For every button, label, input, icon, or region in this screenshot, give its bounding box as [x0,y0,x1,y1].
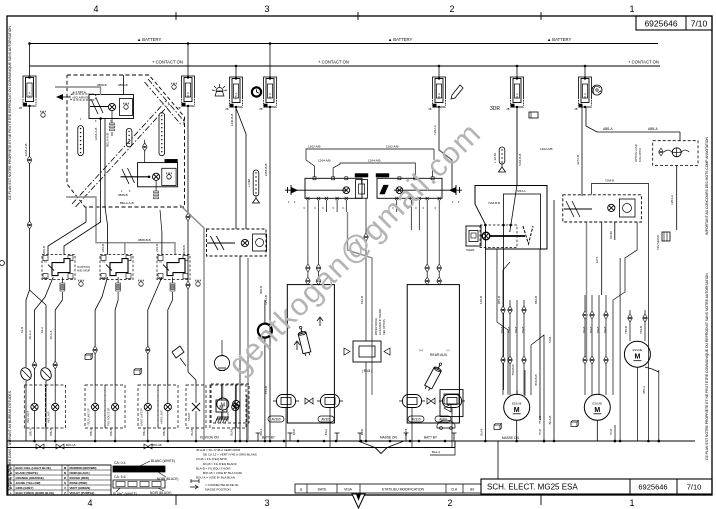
row lower stubs [307,200,309,212]
motor M3 rear aux [624,341,650,367]
svg-text:AV310: AV310 [411,418,421,422]
cluster box 1 [89,95,134,119]
dashed sub box [480,225,517,248]
wire cluster to sw3 [161,232,163,255]
left bus elbow [430,441,455,455]
fuse F7 10A [584,65,587,68]
wire M3 to masse [658,370,660,441]
svg-text:CA: 5-6: CA: 5-6 [114,475,126,479]
black label ELEVA [165,159,178,162]
left margin punch mark [0,261,5,266]
svg-text:= CONNECTEUR DE FIL: = CONNECTEUR DE FIL [205,483,239,487]
svg-text:KLAXON ON: KLAXON ON [200,436,219,440]
lamp box L4 [105,385,125,428]
svg-text:63-B: 63-B [20,327,24,333]
stub connectors [306,264,310,267]
gray feed wire into cluster [55,87,101,95]
svg-text:10 A: 10 A [268,93,272,99]
svg-text:L: L [10,491,12,495]
svg-text:206-B: 206-B [42,246,46,254]
icon box 2 [162,168,176,185]
svg-text:CLA: CLA [451,488,458,492]
svg-text:BELA-A-B: BELA-A-B [120,201,134,205]
courtesy dashed box [211,384,249,423]
svg-text:LICENSED IF THE/RR: LICENSED IF THE/RR [378,309,382,335]
bottom ruler tick 2/1 [540,495,542,505]
wire right stubs down [426,212,428,264]
left row internal wire [285,189,346,191]
svg-text:751-B: 751-B [538,416,542,424]
svg-text:+ DIM: + DIM [247,178,251,187]
svg-text:(-): (-) [447,348,450,352]
svg-text:M: M [514,407,520,414]
svg-text:ARRD LANT: ARRD LANT [160,410,163,424]
gray riser mid [247,258,249,441]
flasher label black [355,174,368,178]
battery bus [30,43,659,45]
wires below rear window box [484,249,486,441]
svg-text:2B: 2B [259,107,262,111]
svg-text:3274-B: 3274-B [576,155,580,165]
M3 riser [636,367,638,441]
row top pins [313,177,316,180]
svg-text:CA: 0-4: CA: 0-4 [114,461,126,465]
svg-text:6925646: 6925646 [644,19,677,29]
lamp L5 [144,403,151,410]
svg-text:A1: A1 [44,260,48,264]
switch contact left of box1 [90,106,108,108]
washer cylinder front [296,325,311,356]
wires below rear cluster [601,222,603,295]
svg-text:V: V [64,486,66,490]
svg-text:3rd: 3rd [470,488,475,492]
wire cluster to sw2 [105,207,108,255]
wire L3 to masse [94,385,96,403]
lamp L6 [164,403,171,410]
svg-text:1264-A/B: 1264-A/B [318,159,331,163]
svg-text:DE CA.12 + VERT N°45.A GRIS-BL: DE CA.12 + VERT N°45.A GRIS-BLANC [203,453,258,457]
switch unit S2 [100,255,133,280]
svg-text:1262-A/B: 1262-A/B [386,145,399,149]
svg-text:+ 30-50: + 30-50 [493,153,497,164]
feed pill col2 [499,147,505,164]
svg-text:ESSUIE: ESSUIE [633,348,643,352]
svg-text:ORANGE (ORANGE): ORANGE (ORANGE) [16,476,44,480]
diamond junction rear [427,398,435,404]
svg-text:355-A: 355-A [642,386,646,394]
slant wires to node [358,441,375,448]
svg-text:2B: 2B [506,107,509,111]
svg-text:M: M [594,407,600,414]
wire S2 to lamp L4 [115,300,118,385]
wire clamp [264,338,266,441]
wire F7 to option box [586,107,680,132]
wires M3 [629,310,631,341]
svg-text:+ CONTACT ON: + CONTACT ON [318,60,349,65]
svg-text:10 A: 10 A [515,93,519,99]
revision strip [295,484,481,493]
svg-text:7264: 7264 [548,336,552,343]
svg-text:ARRG LANT SP: ARRG LANT SP [140,408,143,426]
wire L2 to masse [54,385,56,403]
fuse F6 10A [516,65,519,68]
svg-text:T-BOOT: T-BOOT [188,412,191,421]
svg-text:4: 4 [93,4,98,14]
svg-text:2: 2 [447,498,452,508]
svg-text:BOU-A = VOIE B° BLA BLAN: BOU-A = VOIE B° BLA BLAN [196,476,235,480]
hazard label black [376,174,389,178]
oval label V3 [408,416,424,422]
svg-text:266-B: 266-B [101,244,105,252]
lamp high-beam [108,103,115,110]
svg-text:2264-A-B: 2264-A-B [24,144,28,157]
svg-text:3DR: 3DR [490,106,500,112]
wire S3 to lamp L5 [148,277,162,385]
svg-text:A1: A1 [159,260,163,264]
svg-text:M: M [221,403,225,409]
svg-text:REAR AUX.: REAR AUX. [430,353,448,357]
fuse F5 10A [438,65,441,68]
clamp ring [258,324,272,338]
M2 risers [613,270,625,395]
svg-text:B3: B3 [44,276,48,280]
small bus glyphs [256,433,261,441]
svg-text:30.A-5: 30.A-5 [49,330,53,339]
icon horn small 2 [134,370,140,375]
clock icon at F4 [252,87,261,96]
indicator icon box [120,99,133,116]
svg-text:751-B: 751-B [540,428,542,435]
svg-text:FEUX LANT SP: FEUX LANT SP [88,408,91,425]
svg-text:Z: Z [64,491,66,495]
beacon icon at F3 [216,88,223,91]
svg-text:764-B: 764-B [604,326,607,333]
gray wire to washer box [348,212,373,395]
bottom ruler tick 4/3 [175,495,177,505]
svg-text:SCH. ELECT. MG25 ESA: SCH. ELECT. MG25 ESA [487,483,578,492]
svg-text:ABB-A: ABB-A [648,127,658,131]
svg-text:BLA-B: BLA-B [480,428,483,435]
box chamfer [475,204,486,225]
horn HP2 [39,366,54,382]
svg-text:AV300: AV300 [271,418,281,422]
svg-text:2: 2 [449,4,454,14]
svg-text:▲ BATTERY: ▲ BATTERY [388,37,412,42]
svg-text:BELA-A-B: BELA-A-B [106,133,110,147]
svg-text:ROUGE (RED): ROUGE (RED) [70,476,89,480]
motor box M-plate [216,400,227,412]
ladder connector S3 [172,277,174,283]
wire cluster to sw1b [64,207,101,255]
svg-text:BLANC (WHITE): BLANC (WHITE) [113,492,137,496]
oval label V4 [435,416,451,422]
svg-text:10 A: 10 A [437,93,441,99]
svg-text:AV62: AV62 [439,418,447,422]
svg-text:BOU-B: BOU-B [152,443,162,447]
svg-text:7/10: 7/10 [691,19,708,29]
svg-text:NOIR (BLACK): NOIR (BLACK) [70,471,90,475]
left arrow turn [291,187,298,194]
svg-text:AV301: AV301 [321,418,331,422]
gray harness wire 1 [66,197,175,255]
wire F6 into box [516,180,518,186]
svg-text:10 A: 10 A [583,93,587,99]
svg-text:+ECLAIRAGE: +ECLAIRAGE [72,96,89,100]
svg-text:1254-B-B: 1254-B-B [264,164,268,177]
svg-text:H: H [10,486,12,490]
colour code table [8,465,111,495]
svg-text:▲ BATTERY: ▲ BATTERY [547,37,571,42]
fog connector plug [662,232,670,241]
svg-text:BATT BY: BATT BY [262,436,276,440]
diamond junction front [305,398,313,404]
headlamp icon S1 [79,282,83,286]
relay EV8 [353,341,381,362]
svg-text:763-B: 763-B [590,326,593,333]
rear box entry connectors [425,277,429,280]
svg-text:BOU-B: BOU-B [51,428,53,436]
svg-text:761-B: 761-B [611,428,613,435]
M1 right riser [531,335,544,441]
svg-text:1240-B-B: 1240-B-B [230,114,234,127]
svg-text:ESSUIE: ESSUIE [512,401,522,405]
slant wires lamp row [247,441,260,448]
svg-text:Δ: Δ [300,487,303,492]
connector on L1 wire [32,361,36,364]
svg-text:B3: B3 [102,276,106,280]
svg-text:1: 1 [629,4,634,14]
wires below washer boxes [285,408,287,448]
horn feed wires [26,290,30,367]
wire L1 to masse [34,385,36,403]
relay block left of bus [440,390,463,417]
svg-text:VISA: VISA [344,488,352,492]
horn HP1 [19,366,34,382]
svg-text:3: 3 [264,498,269,508]
svg-text:612-B: 612-B [362,428,364,435]
wire into box2 top [144,140,146,163]
lamp L9 [233,400,240,407]
fuse F2 10A [187,42,190,45]
svg-text:2B: 2B [574,107,577,111]
wire right of box [553,200,555,441]
option lamp dashed box [653,141,698,166]
svg-text:760-B: 760-B [597,326,600,333]
svg-text:ABB-A: ABB-A [603,127,613,131]
headlamp icon at F2 [172,85,176,89]
horn icon at F1 [41,113,45,117]
svg-text:NOIR: NOIR [609,230,613,238]
svg-text:BOU-A: BOU-A [66,443,76,447]
svg-text:S: S [64,481,66,485]
wiper control box rear [407,285,459,423]
connector pill P1 [78,126,84,156]
svg-text:768-B: 768-B [624,326,628,334]
svg-text:BOU-A: BOU-A [30,428,33,436]
row bottom pins [306,197,309,200]
svg-text:629-A: 629-A [325,428,328,435]
svg-text:TERMA: TERMA [466,249,475,252]
svg-text:OPTION LAND: OPTION LAND [634,144,638,162]
lamp L1 [31,403,38,410]
svg-text:45.A-B = FIL N°45.A VERT-NOIR: 45.A-B = FIL N°45.A VERT-NOIR [196,448,241,452]
wire F7 down to cluster [581,107,583,196]
svg-text:FOG OPTIC: FOG OPTIC [638,148,642,162]
wire box1 to bottom [100,119,102,208]
rear window switch box [475,186,547,250]
arrow up icons front [294,341,300,350]
svg-text:860-B-B: 860-B-B [534,374,538,385]
svg-text:160-B: 160-B [479,296,483,304]
wire S3 to lamp L6 [168,300,173,385]
top title box [636,16,712,30]
connector pill P3 [159,113,165,156]
svg-text:7264-B-B: 7264-B-B [488,201,500,205]
panel lamp cluster [207,229,267,256]
lower wire bus [7,447,455,449]
turn switch left body [305,178,362,198]
svg-text:MASSE ON: MASSE ON [380,436,398,440]
switch unit S1 [42,255,75,280]
lamp L3 [92,403,99,410]
svg-text:754-B: 754-B [522,326,525,333]
svg-text:MARRON (BROWN): MARRON (BROWN) [70,466,97,470]
svg-text:JAUNE (YELLOW): JAUNE (YELLOW) [16,481,41,485]
svg-text:3868-B: 3868-B [118,83,128,87]
svg-text:ETAT/LIEU MODIFICATION: ETAT/LIEU MODIFICATION [382,488,425,492]
svg-text:63-A: 63-A [40,327,44,333]
headlamp icon S2 [139,282,143,286]
hazard wiper [379,185,388,194]
lamp box L5 [138,385,158,428]
heater bar [490,235,525,237]
svg-text:7/10: 7/10 [687,483,702,492]
solenoid V4 [443,395,462,408]
svg-text:10 A: 10 A [28,92,32,98]
svg-text:VERT (GREEN): VERT (GREEN) [70,486,91,490]
wire S1 to lamp L2 [55,300,62,385]
svg-text:CEV NERVO: CEV NERVO [656,235,660,250]
option connector [659,148,663,151]
svg-text:BLANC (WHITE): BLANC (WHITE) [16,471,38,475]
headlamp icon S3 [196,282,200,286]
svg-text:20-B-B: 20-B-B [182,245,186,254]
svg-text:226-B: 226-B [155,244,159,252]
fan icon at F7 [592,85,602,95]
right arrow turn [449,187,456,194]
inner partition [504,194,541,249]
solenoid V1 [277,395,296,408]
svg-text:A1: A1 [102,260,106,264]
svg-text:BLA-B: BLA-B [548,416,552,425]
switch unit S3 [157,255,190,280]
wire L6 to masse [167,385,169,403]
oval label V1 [268,416,284,422]
M1 wire bundle [502,300,504,395]
svg-text:(+): (+) [419,348,423,352]
window icon at F6 [529,112,538,118]
wire top into box1 [123,75,125,95]
M1 bundle connectors [501,306,505,309]
svg-text:2B: 2B [225,107,228,111]
switch lever slant [510,186,517,233]
dimmer feed pill [253,170,259,196]
ACC arrow [56,94,63,100]
svg-text:▲ BATTERY: ▲ BATTERY [137,37,161,42]
car icon [437,420,455,428]
right tall risers [592,183,649,441]
svg-text:1254-A: 1254-A [670,195,674,205]
gray harness drop box2 [124,243,126,255]
svg-text:1: 1 [629,498,634,508]
lamp L4 [112,403,119,410]
svg-text:CE PLAN EST NOTRE PROPRIETE ET: CE PLAN EST NOTRE PROPRIETE ET NE PEUT E… [8,26,12,200]
connector on L3 wire [93,346,97,349]
cluster diagonal upper [148,79,184,121]
wire F6 down [516,107,518,185]
ladder connector S1 [61,277,63,283]
svg-text:102-B: 102-B [360,296,364,304]
svg-text:BLA-A: BLA-A [432,450,440,454]
svg-text:860-B: 860-B [534,296,538,304]
svg-text:6925646: 6925646 [638,483,667,492]
cluster box 2 [138,163,178,187]
horn icon mid [494,425,500,430]
rear cluster dashed box [563,195,642,222]
winged lamp symbol [672,148,681,157]
pen icon at F5 [451,85,463,99]
svg-text:1262-A/B: 1262-A/B [540,147,553,151]
ladder connector S2 [117,277,119,283]
svg-text:1262-A/B: 1262-A/B [308,145,321,149]
lamp box L6 [158,385,178,428]
svg-text:CE PLAN EST NOTRE PROPRIETE ET: CE PLAN EST NOTRE PROPRIETE ET NE PEUT E… [705,273,709,460]
lamp box L3 [85,385,105,428]
solenoid V3 [403,395,422,408]
svg-text:608-B: 608-B [259,286,263,294]
svg-text:GRIS (GREY): GRIS (GREY) [16,486,34,490]
wire EV8 [365,241,367,341]
lamp L2 [52,403,59,410]
svg-text:629-B: 629-B [294,428,296,435]
svg-text:1262-A: 1262-A [433,125,437,135]
svg-text:( EV8 ): ( EV8 ) [362,369,373,373]
svg-text:IMPORTANT AU CONCOURS DES MOTS: IMPORTANT AU CONCOURS DES MOTS COMP ANNO… [705,136,709,235]
switch contacts at box2 [121,176,150,178]
svg-text:753-B: 753-B [508,326,511,333]
control unit step box [466,226,481,246]
node vee [375,448,387,454]
svg-text:ESSUIE: ESSUIE [593,401,603,405]
lamp box L8 plate [210,385,246,428]
V symbol [523,226,533,244]
svg-text:3274: 3274 [595,256,599,263]
svg-text:DO-B = FIL D'EQ BLANC: DO-B = FIL D'EQ BLANC [203,462,238,466]
svg-text:DATE: DATE [318,488,328,492]
ground stack box1 [111,111,113,123]
svg-text:BLEU FONCE (DARK BLUE): BLEU FONCE (DARK BLUE) [16,491,55,495]
masse bus [7,440,695,442]
title block [481,479,712,494]
lamp L8 [232,403,239,410]
svg-text:2B: 2B [19,106,22,110]
svg-text:7264-B-B: 7264-B-B [518,154,522,167]
svg-text:1264-A-B: 1264-A-B [94,128,98,141]
icon horn small 1 [85,355,91,360]
gray harness wire 3 [180,205,204,441]
gray wire M2 [586,222,588,360]
turn switch right body [377,178,442,198]
